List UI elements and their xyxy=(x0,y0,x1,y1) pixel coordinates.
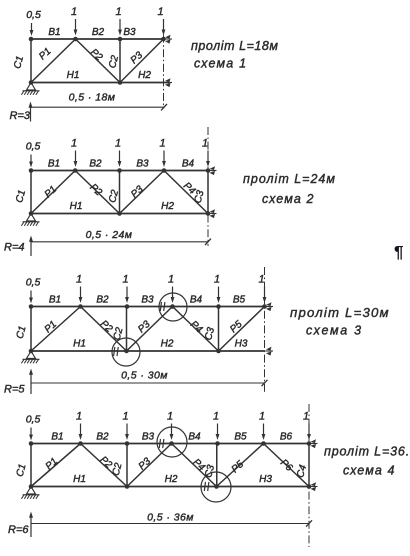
scheme 4 top node x=31 xyxy=(29,441,34,446)
scheme 3 load 1 arrow xyxy=(171,287,175,304)
svg-text:B5: B5 xyxy=(233,295,246,306)
scheme 4 vertical member C3 xyxy=(216,444,218,487)
scheme 3 diagonal member P4 xyxy=(173,307,219,352)
scheme 4 load 1 arrow xyxy=(307,424,311,441)
svg-text:B4: B4 xyxy=(188,432,201,443)
scheme 4 top chord xyxy=(31,443,309,445)
svg-text:R=5: R=5 xyxy=(4,384,25,396)
scheme 2 vertical member C1 xyxy=(30,171,32,214)
scheme 3 load 1 arrow xyxy=(217,287,221,304)
svg-text:H1: H1 xyxy=(73,474,86,485)
svg-text:H3: H3 xyxy=(259,474,272,485)
scheme 3 load 0,5 arrow xyxy=(29,291,33,304)
truss scheme 1 xyxy=(10,6,279,122)
scheme 2 axis of symmetry centerline xyxy=(207,127,209,246)
scheme 4 load 1 arrow xyxy=(170,424,174,441)
scheme 2 pin support xyxy=(21,214,39,226)
scheme 4 reaction arrow xyxy=(29,512,33,538)
svg-text:схема 2: схема 2 xyxy=(262,192,315,206)
svg-text:¶: ¶ xyxy=(394,243,403,262)
scheme 4 chord double tick xyxy=(204,482,209,491)
scheme 3 bottom node x=218.5 xyxy=(216,349,221,354)
svg-text:C3: C3 xyxy=(203,463,217,479)
scheme 3 diagonal member P3 xyxy=(127,307,173,352)
scheme 1 top node x=120 xyxy=(118,37,123,42)
svg-text:1: 1 xyxy=(122,411,128,423)
svg-text:0,5: 0,5 xyxy=(26,9,41,21)
svg-text:пролiт L=30м: пролiт L=30м xyxy=(290,305,390,320)
svg-text:C2: C2 xyxy=(107,54,121,70)
svg-text:0,5: 0,5 xyxy=(26,277,41,289)
scheme 2 diagonal member P4 xyxy=(164,171,208,214)
svg-text:1: 1 xyxy=(213,411,219,423)
scheme 2 vertical member C2 xyxy=(119,171,121,214)
svg-text:B1: B1 xyxy=(48,159,60,170)
scheme 3 top chord xyxy=(31,306,265,308)
svg-text:P3: P3 xyxy=(129,184,146,201)
svg-text:C2: C2 xyxy=(112,326,126,342)
scheme 1 top chord xyxy=(31,38,164,40)
svg-text:C1: C1 xyxy=(15,463,29,478)
scheme 2 bottom node x=208 xyxy=(206,211,211,216)
svg-text:1: 1 xyxy=(159,138,165,150)
svg-text:B4: B4 xyxy=(190,295,203,306)
scheme 3 vertical member C1 xyxy=(30,307,32,352)
scheme 2 vertical member C3 xyxy=(207,171,209,214)
scheme 2 top node x=75.2 xyxy=(73,168,78,173)
scheme 4 pin support xyxy=(21,487,39,499)
scheme 4 chord double tick xyxy=(159,439,164,448)
scheme 1 diagonal member P1 xyxy=(31,39,76,83)
svg-text:H2: H2 xyxy=(138,70,151,81)
scheme 1 bottom node x=31 xyxy=(29,80,34,85)
scheme 3 vertical member C2 xyxy=(126,307,128,352)
scheme 2 symmetry mark top xyxy=(209,166,217,175)
svg-text:B2: B2 xyxy=(96,432,109,443)
scheme 1 top node x=31 xyxy=(29,37,34,42)
svg-text:1: 1 xyxy=(303,411,309,423)
svg-text:0,5: 0,5 xyxy=(26,414,41,426)
scheme 3 symmetry mark bottom xyxy=(266,347,274,356)
svg-text:P3: P3 xyxy=(136,319,153,336)
svg-text:1: 1 xyxy=(76,274,82,286)
scheme 4 load 1 arrow xyxy=(262,424,266,441)
scheme 4 dimension line xyxy=(31,520,312,526)
scheme 1 diagonal member P2 xyxy=(76,39,121,83)
svg-text:H1: H1 xyxy=(70,201,83,212)
scheme 4 diagonal member P5 xyxy=(217,444,264,487)
scheme 3 chord double tick xyxy=(160,302,165,311)
scheme 3 diagonal member P2 xyxy=(81,307,127,352)
svg-text:1: 1 xyxy=(214,274,220,286)
scheme 1 reaction arrow xyxy=(29,102,33,122)
svg-text:1: 1 xyxy=(115,6,121,18)
scheme 3 top node x=172.5 xyxy=(170,304,175,309)
scheme 4 bottom node x=309 xyxy=(307,484,312,489)
scheme 3 bottom node x=126.5 xyxy=(124,349,129,354)
svg-text:C3: C3 xyxy=(193,189,207,205)
scheme 2 symmetry mark bottom xyxy=(209,209,217,218)
scheme 3 diagonal member P5 xyxy=(219,307,265,352)
scheme 4 symmetry mark top xyxy=(310,439,318,448)
svg-text:C1: C1 xyxy=(12,55,26,70)
svg-text:B6: B6 xyxy=(280,432,293,443)
svg-text:P1: P1 xyxy=(43,319,59,335)
svg-text:1: 1 xyxy=(76,411,82,423)
scheme 2 load 1 arrow xyxy=(74,151,78,168)
scheme 3 diagonal member P1 xyxy=(31,307,81,352)
svg-text:H2: H2 xyxy=(161,339,174,350)
svg-text:0,5 · 24м: 0,5 · 24м xyxy=(86,229,133,241)
scheme 3 top node x=264.5 xyxy=(262,304,267,309)
scheme 2 bottom chord xyxy=(31,213,208,215)
scheme 1 diagonal member P3 xyxy=(120,39,164,83)
svg-text:1: 1 xyxy=(157,6,163,18)
scheme 3 load 1 arrow xyxy=(79,287,83,304)
scheme 3 bottom chord xyxy=(31,350,265,352)
scheme 1 axis of symmetry centerline xyxy=(163,20,165,109)
scheme 1 bottom chord xyxy=(31,82,169,84)
scheme 1 dimension line xyxy=(31,104,168,110)
scheme 2 load 1 arrow xyxy=(206,151,210,168)
scheme 2 load 1 arrow xyxy=(118,151,122,168)
svg-text:1: 1 xyxy=(71,138,77,150)
svg-text:1: 1 xyxy=(258,274,264,286)
scheme 3 vertical member C3 xyxy=(218,307,220,352)
svg-text:C4: C4 xyxy=(295,463,309,479)
scheme 4 node circle mark xyxy=(157,427,187,457)
scheme 3 axis of symmetry centerline xyxy=(264,267,266,393)
svg-text:C2: C2 xyxy=(111,461,125,477)
svg-text:схема 1: схема 1 xyxy=(194,57,247,71)
scheme 2 top node x=164 xyxy=(162,168,167,173)
scheme 4 diagonal member P3 xyxy=(127,444,172,487)
scheme 4 top node x=309 xyxy=(307,441,312,446)
scheme 4 vertical member C1 xyxy=(30,444,32,487)
svg-text:B5: B5 xyxy=(234,432,247,443)
svg-text:H1: H1 xyxy=(67,70,80,81)
scheme 3 chord double tick xyxy=(114,347,119,356)
svg-text:1: 1 xyxy=(167,411,173,423)
scheme 2 load 0,5 arrow xyxy=(29,155,33,168)
scheme 4 symmetry mark bottom xyxy=(310,482,318,491)
svg-text:R=6: R=6 xyxy=(8,524,29,536)
svg-text:P2: P2 xyxy=(88,47,105,64)
scheme 1 top node x=75.5 xyxy=(73,37,78,42)
scheme 1 load 1 arrow xyxy=(118,19,122,36)
scheme 1 load 1 arrow xyxy=(74,19,78,36)
scheme 3 node circle mark xyxy=(112,338,140,366)
scheme 1 top node x=163.5 xyxy=(161,37,166,42)
scheme 4 top node x=80.5 xyxy=(78,441,83,446)
svg-text:схема 3: схема 3 xyxy=(306,324,363,338)
scheme 2 dimension line xyxy=(31,239,211,245)
scheme 4 load 0,5 arrow xyxy=(29,428,33,441)
svg-text:1: 1 xyxy=(259,411,265,423)
svg-text:H2: H2 xyxy=(165,474,178,485)
svg-text:B3: B3 xyxy=(136,159,149,170)
svg-text:P3: P3 xyxy=(129,50,146,67)
scheme 2 top node x=31 xyxy=(29,168,34,173)
svg-text:B3: B3 xyxy=(123,27,136,38)
svg-text:B4: B4 xyxy=(182,159,195,170)
scheme 4 top node x=127 xyxy=(125,441,130,446)
scheme 4 load 1 arrow xyxy=(125,424,129,441)
svg-text:B3: B3 xyxy=(141,295,154,306)
scheme 4 diagonal member P6 xyxy=(264,444,310,487)
scheme 2 bottom node x=31 xyxy=(29,211,34,216)
scheme 4 top node x=217.5 xyxy=(215,441,220,446)
svg-text:P3: P3 xyxy=(137,456,154,473)
scheme 4 node circle mark xyxy=(201,472,231,502)
svg-text:B3: B3 xyxy=(142,432,155,443)
scheme 3 top node x=218.5 xyxy=(216,304,221,309)
scheme 4 load 1 arrow xyxy=(79,424,83,441)
svg-text:B2: B2 xyxy=(96,295,109,306)
scheme 3 reaction arrow xyxy=(29,369,33,395)
svg-text:1: 1 xyxy=(122,274,128,286)
scheme 4 diagonal member P4 xyxy=(172,444,217,487)
svg-text:B1: B1 xyxy=(49,295,61,306)
scheme 3 load 1 arrow xyxy=(125,287,129,304)
scheme 4 diagonal member P1 xyxy=(31,444,81,487)
scheme 3 dimension line xyxy=(31,380,268,386)
svg-text:1: 1 xyxy=(115,138,121,150)
scheme 3 bottom node x=31 xyxy=(29,349,34,354)
scheme 4 axis of symmetry centerline xyxy=(308,404,310,547)
svg-text:B2: B2 xyxy=(92,27,105,38)
svg-text:0,5 · 36м: 0,5 · 36м xyxy=(147,512,194,524)
svg-text:1: 1 xyxy=(202,138,208,150)
scheme 2 diagonal member P3 xyxy=(120,171,165,214)
svg-text:P5: P5 xyxy=(228,319,245,336)
scheme 2 diagonal member P2 xyxy=(75,171,119,214)
scheme 2 diagonal member P1 xyxy=(31,171,75,214)
svg-text:C1: C1 xyxy=(14,189,28,204)
scheme 4 load 1 arrow xyxy=(216,424,220,441)
scheme 3 top node x=80.5 xyxy=(78,304,83,309)
svg-text:1: 1 xyxy=(168,274,174,286)
scheme 3 top node x=31 xyxy=(29,304,34,309)
svg-text:0,5: 0,5 xyxy=(26,141,41,153)
scheme 3 symmetry mark top xyxy=(266,302,274,311)
svg-text:B1: B1 xyxy=(48,27,60,38)
svg-text:H1: H1 xyxy=(73,339,86,350)
truss scheme 3 xyxy=(4,267,390,396)
scheme 4 bottom node x=216.5 xyxy=(214,484,219,489)
svg-text:H3: H3 xyxy=(235,339,248,350)
scheme 4 bottom node x=127 xyxy=(125,484,130,489)
scheme 1 symmetry mark top xyxy=(165,35,173,44)
scheme 1 pin support xyxy=(21,83,39,95)
scheme 1 bottom node x=120 xyxy=(118,80,123,85)
svg-text:схема 4: схема 4 xyxy=(343,464,396,478)
scheme 2 top node x=119.5 xyxy=(117,168,122,173)
svg-text:B2: B2 xyxy=(89,159,102,170)
svg-text:пролiт L=24м: пролiт L=24м xyxy=(243,172,336,186)
svg-text:B1: B1 xyxy=(51,432,63,443)
svg-text:P1: P1 xyxy=(43,184,59,200)
svg-text:пролiт L=36.: пролiт L=36. xyxy=(324,445,410,459)
truss scheme 4 xyxy=(8,404,410,547)
scheme 1 load 1 arrow xyxy=(162,19,166,36)
svg-text:1: 1 xyxy=(71,6,77,18)
scheme 2 bottom node x=119.5 xyxy=(117,211,122,216)
scheme 3 node circle mark xyxy=(159,293,187,321)
svg-text:0,5 · 30м: 0,5 · 30м xyxy=(121,370,168,382)
scheme 1 vertical member C2 xyxy=(119,39,121,83)
svg-text:C1: C1 xyxy=(15,325,29,340)
svg-text:P4: P4 xyxy=(188,319,205,336)
svg-text:пролiт L=18м: пролiт L=18м xyxy=(191,39,279,53)
scheme 2 load 1 arrow xyxy=(162,151,166,168)
scheme 4 vertical member C2 xyxy=(126,444,128,487)
scheme 3 pin support xyxy=(21,351,39,363)
scheme 1 vertical member C1 xyxy=(30,39,32,83)
truss scheme 2 xyxy=(4,127,336,256)
scheme 4 bottom node x=31 xyxy=(29,484,34,489)
svg-text:0,5 · 18м: 0,5 · 18м xyxy=(69,92,116,104)
scheme 4 top node x=171.5 xyxy=(169,441,174,446)
scheme 3 load 1 arrow xyxy=(263,287,267,304)
scheme 4 bottom chord xyxy=(31,486,309,488)
scheme 2 top chord xyxy=(31,170,208,172)
svg-text:R=3: R=3 xyxy=(10,110,31,122)
scheme 3 top node x=127 xyxy=(125,304,130,309)
scheme 2 reaction arrow xyxy=(29,236,33,257)
svg-text:C3: C3 xyxy=(203,326,217,342)
svg-text:R=4: R=4 xyxy=(4,242,25,254)
svg-text:H2: H2 xyxy=(161,201,174,212)
svg-text:P1: P1 xyxy=(37,46,53,62)
scheme 4 vertical member C4 xyxy=(308,444,310,487)
svg-text:P1: P1 xyxy=(44,456,60,472)
scheme 4 top node x=263.5 xyxy=(261,441,266,446)
scheme 4 diagonal member P2 xyxy=(81,444,128,487)
scheme 1 bottom chord end tick xyxy=(165,78,173,87)
scheme 2 top node x=208 xyxy=(206,168,211,173)
scheme 1 load 0,5 arrow xyxy=(30,23,34,36)
